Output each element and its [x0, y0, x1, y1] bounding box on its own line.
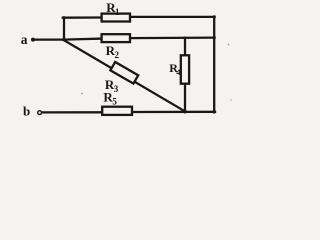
- resistor R1: [102, 14, 130, 22]
- svg-text:1: 1: [115, 7, 120, 17]
- wire: vertical connector from node a up to top row: [63, 17, 65, 40]
- wire: R4 upper leg: [184, 38, 186, 56]
- svg-text:5: 5: [112, 96, 117, 106]
- wire: R2 right to right bus: [130, 36, 215, 39]
- scan speck: [228, 44, 230, 46]
- resistor R5: [102, 107, 132, 115]
- wire: right vertical bus: [213, 17, 215, 113]
- svg-text:a: a: [21, 32, 28, 47]
- svg-text:3: 3: [114, 84, 119, 94]
- wire: terminal b to R5: [42, 111, 103, 113]
- wire: terminal a to node: [35, 38, 64, 40]
- wire: top row right segment to right bus: [130, 16, 215, 18]
- terminal b circle: [38, 111, 42, 115]
- terminal a dot: [31, 38, 35, 42]
- wire: node to R2 left: [64, 39, 103, 40]
- wire: diagonal from node a to bottom junction (R3 branch): [64, 40, 185, 111]
- resistor R2: [102, 34, 130, 42]
- wire: R5 right to bottom right corner: [132, 111, 215, 113]
- resistor R4 (vertical): [181, 55, 189, 83]
- wire: top row left segment: [63, 16, 102, 19]
- scan speck: [230, 99, 232, 101]
- scan speck: [81, 93, 83, 95]
- svg-text:b: b: [23, 103, 30, 118]
- junction at R4 bottom: [184, 110, 187, 113]
- wire: R4 lower leg: [184, 84, 186, 113]
- paper background: [0, 0, 238, 127]
- svg-text:4: 4: [176, 67, 181, 77]
- svg-text:2: 2: [115, 50, 120, 60]
- resistor R3 (tilted): [110, 62, 138, 84]
